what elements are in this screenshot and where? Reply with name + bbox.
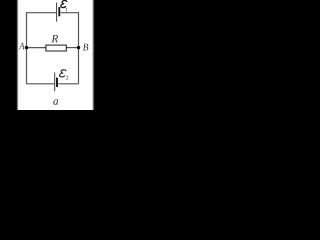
resistor R [46, 45, 66, 51]
battery E2 short thick plate [56, 78, 58, 87]
background [0, 0, 110, 110]
label A [19, 43, 25, 50]
wire left vertical [26, 12, 28, 84]
wire middle resistor to B [66, 47, 78, 49]
wire middle A to resistor [27, 47, 46, 49]
figure panel [18, 0, 92, 110]
wire top left segment [27, 12, 57, 14]
node A dot [25, 46, 28, 49]
wire top right segment [61, 12, 79, 14]
label EMF script E2 [60, 70, 67, 77]
wire right vertical [78, 12, 80, 84]
battery E1 long plate [56, 3, 58, 22]
node B dot [77, 46, 80, 49]
label E2 subscript 2 [66, 76, 68, 80]
label a [53, 99, 58, 104]
label R [51, 35, 58, 42]
battery E1 short thick plate [58, 7, 60, 16]
label EMF script E1 [61, 0, 67, 7]
label B [83, 44, 88, 51]
wire bottom left segment [27, 83, 55, 85]
wire bottom right segment [58, 83, 78, 85]
battery E2 long plate [54, 72, 56, 91]
label E1 subscript 1 [65, 8, 67, 12]
